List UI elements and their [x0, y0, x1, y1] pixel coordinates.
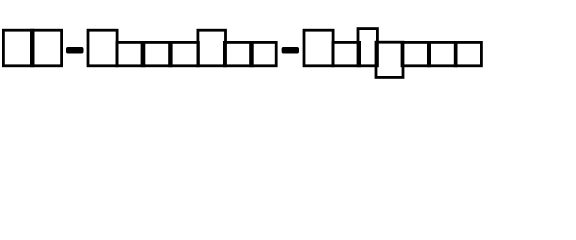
glyph box 6 (group 2, short) [170, 42, 199, 65]
glyph box 11 (group 3, short) [333, 42, 360, 65]
glyph box 12 (group 3, narrow tall) [358, 29, 377, 66]
glyph box 9 (group 2, short) [251, 42, 277, 65]
glyph box 4 (group 2, short) [117, 42, 144, 65]
glyph box 10 (group 3, tall) [304, 30, 333, 66]
glyph box 2 (group 1, tall) [31, 30, 61, 66]
glyph box 15 (group 3, short) [428, 42, 456, 65]
glyph box 1 (group 1, tall) [3, 30, 33, 66]
glyph box 13 (group 3, descender) [376, 42, 403, 77]
hyphen 1 [66, 47, 84, 54]
glyph box 8 (group 2, short) [224, 42, 252, 65]
hyphen 2 [282, 47, 299, 54]
glyph box 14 (group 3, short) [402, 42, 430, 65]
glyph box 3 (group 2, tall) [88, 30, 117, 66]
glyph box 16 (group 3, short) [455, 42, 481, 65]
glyph box 5 (group 2, short) [142, 42, 171, 65]
glyph box 7 (group 2, tall) [198, 30, 226, 66]
